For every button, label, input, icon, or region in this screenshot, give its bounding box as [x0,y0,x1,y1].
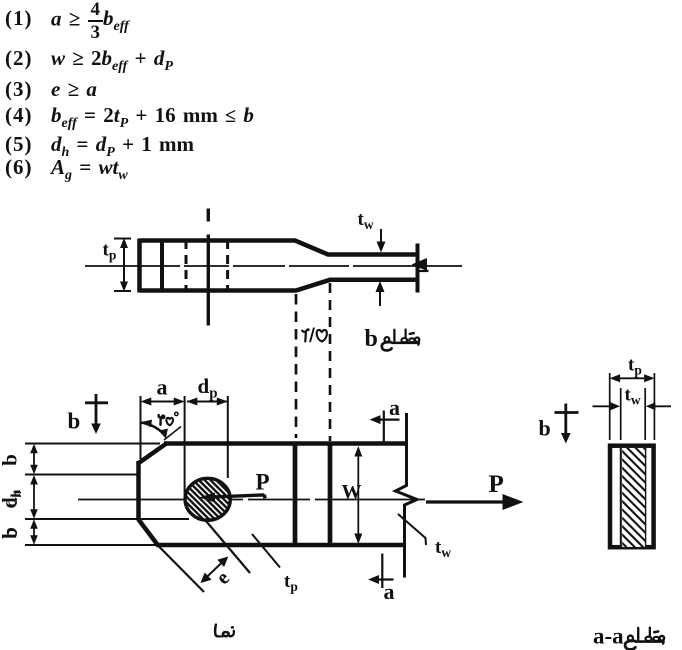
svg-text:W: W [342,481,362,503]
svg-text:b: b [539,416,551,441]
svg-text:a: a [157,374,168,399]
svg-text:dp: dp [198,374,218,402]
svg-text:tp: tp [103,240,117,263]
svg-text:P: P [256,470,270,495]
svg-text:a: a [389,395,400,420]
svg-text:tp: tp [628,355,642,378]
svg-text:a-a: a-a [593,624,624,649]
svg-text:tw: tw [358,209,374,232]
svg-text:a: a [384,579,395,604]
svg-text:tp: tp [284,571,298,594]
svg-text:b: b [365,326,378,352]
svg-text:b: b [68,409,81,434]
svg-text:tw: tw [625,385,641,408]
svg-text:b: b [1,528,22,538]
svg-text:P: P [489,471,504,498]
svg-text:e: e [212,567,234,589]
svg-text:b: b [0,454,22,466]
svg-text:tw: tw [435,537,451,560]
svg-text:dh: dh [1,491,24,507]
